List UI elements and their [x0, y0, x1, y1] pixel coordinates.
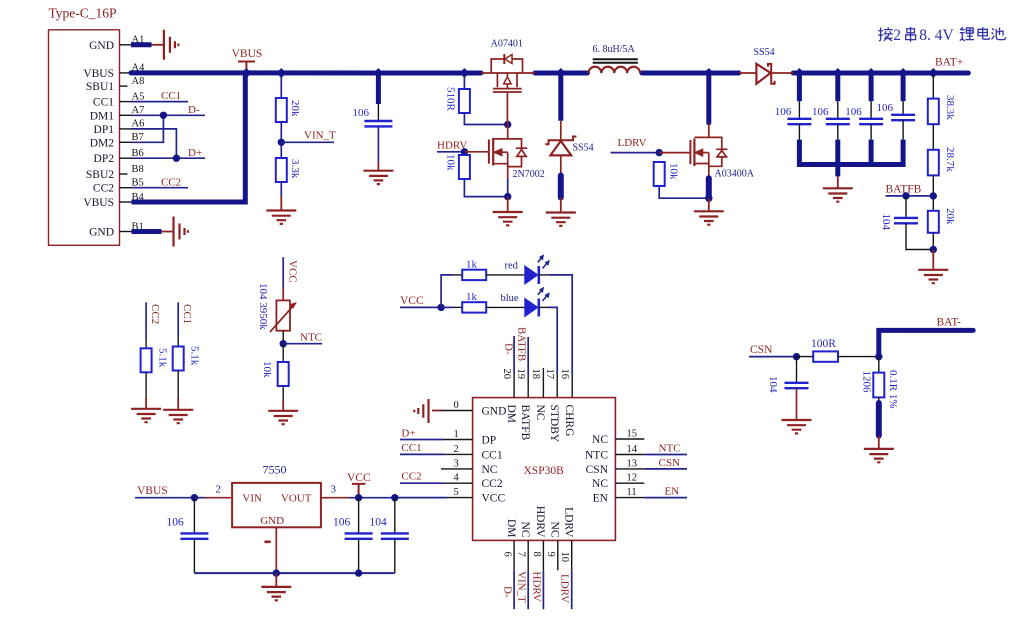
- wire rail to ground: [835, 165, 840, 177]
- svg-text:A03400A: A03400A: [715, 168, 755, 179]
- svg-text:20k: 20k: [289, 100, 301, 117]
- capacitor 104 CSN: [796, 357, 798, 383]
- svg-text:3.3k: 3.3k: [289, 159, 301, 179]
- svg-text:7550: 7550: [263, 463, 287, 477]
- transistor Q2 2N7002 substrate arrow: [494, 149, 502, 156]
- ground below A03400A: [694, 211, 724, 224]
- svg-text:0: 0: [454, 400, 459, 411]
- svg-text:D-: D-: [502, 586, 514, 598]
- svg-text:VBUS: VBUS: [83, 68, 114, 80]
- pin 5 wire VCC: [395, 497, 447, 499]
- svg-text:VBUS: VBUS: [137, 485, 168, 497]
- svg-text:A07401: A07401: [491, 39, 523, 50]
- svg-text:5.1k: 5.1k: [157, 348, 169, 368]
- pin 18 stub: [542, 368, 544, 398]
- svg-text:5.1k: 5.1k: [189, 346, 201, 366]
- resistor 5.1k CC2: [141, 348, 152, 372]
- svg-text:D+: D+: [188, 147, 202, 159]
- svg-text:VBUS: VBUS: [232, 48, 263, 60]
- svg-text:GND: GND: [260, 515, 284, 527]
- transistor Q1 A07401 gate lead: [506, 92, 508, 125]
- ground below cap106: [363, 171, 393, 184]
- ground below shunt: [864, 449, 894, 462]
- svg-text:10k: 10k: [261, 361, 273, 378]
- wire bus to cap 1: [797, 75, 802, 101]
- net stub CC1: [177, 302, 179, 336]
- pin A7 wire, net D-: [120, 114, 132, 116]
- resistor 3.3k: [276, 158, 287, 182]
- junction LDRV node: [656, 149, 663, 156]
- svg-text:DM2: DM2: [90, 137, 115, 149]
- wire bus down to SS54: [558, 73, 563, 121]
- svg-text:D-: D-: [503, 343, 515, 355]
- wire BATFB cap down: [905, 196, 907, 218]
- wire 0.1R to ground: [878, 397, 880, 403]
- pin B4 wire VBUS riser: [120, 201, 132, 203]
- transistor Q1 A07401 wire: [481, 72, 535, 74]
- svg-text:NC: NC: [482, 464, 498, 476]
- svg-text:18: 18: [530, 369, 541, 380]
- resistor 20k BATFB: [928, 211, 939, 233]
- wire red LED to pin16: [539, 274, 549, 276]
- svg-text:12: 12: [627, 473, 638, 484]
- svg-text:13: 13: [627, 458, 638, 469]
- resistor 20k: [276, 98, 287, 122]
- ground below 2N7002: [493, 212, 523, 225]
- diode D3 SS54 cathode bar: [768, 64, 775, 84]
- 7550 GND pin wire: [275, 527, 277, 573]
- svg-text:NC: NC: [592, 434, 608, 446]
- pin 13 wire CSN: [615, 468, 644, 470]
- wire to ground A03400A: [708, 198, 710, 211]
- transistor Q2 2N7002 drain: [493, 125, 508, 139]
- ground below cap bank: [823, 188, 853, 201]
- junction NTC: [280, 340, 287, 347]
- svg-text:LDRV: LDRV: [559, 574, 571, 603]
- junction BATFB chain: [930, 192, 937, 199]
- wire CSN: [749, 356, 797, 358]
- inductor L1 coil: [589, 67, 641, 73]
- BAT+ bus segment: [793, 71, 968, 76]
- LED blue cathode bar: [537, 299, 540, 317]
- svg-text:NC: NC: [549, 522, 561, 538]
- svg-text:VOUT: VOUT: [281, 493, 312, 505]
- svg-text:1206: 1206: [861, 371, 873, 394]
- svg-text:DM1: DM1: [90, 110, 115, 122]
- svg-text:100R: 100R: [811, 338, 836, 350]
- cap bank bottom rail: [797, 162, 906, 167]
- wire 1k to red LED: [486, 274, 525, 276]
- svg-text:DM: DM: [505, 519, 517, 538]
- transistor Q2 2N7002 gate bar: [488, 140, 490, 164]
- svg-text:VCC: VCC: [347, 472, 371, 484]
- transistor Q3 A03400A drain: [694, 123, 708, 137]
- wire cap106 to ground: [377, 126, 379, 162]
- junction VCC 106: [355, 494, 362, 501]
- wire 20k to ground node: [932, 233, 934, 250]
- pin A8 stub: [120, 85, 128, 87]
- svg-text:38.3k: 38.3k: [944, 95, 956, 120]
- wire bus to diode D3: [739, 72, 757, 74]
- svg-text:6. 8uH/5A: 6. 8uH/5A: [593, 44, 636, 55]
- svg-text:15: 15: [627, 429, 638, 440]
- pin 0 wire GND: [441, 410, 473, 412]
- pin 9 stub: [557, 540, 559, 570]
- svg-text:A8: A8: [132, 76, 145, 87]
- diode D3 SS54 triangle: [756, 64, 770, 84]
- svg-text:19: 19: [515, 369, 526, 380]
- svg-text:CC1: CC1: [181, 304, 193, 324]
- svg-text:2: 2: [893, 27, 901, 44]
- LED red triangle: [525, 266, 538, 284]
- svg-text:B8: B8: [132, 164, 144, 175]
- capacitor 106 bank 3: [859, 119, 883, 124]
- svg-text:XSP30B: XSP30B: [524, 465, 565, 477]
- svg-text:VCC: VCC: [287, 260, 299, 283]
- wire 104 CSN to ground: [796, 388, 798, 419]
- svg-text:NC: NC: [519, 522, 531, 538]
- transistor Q1 A07401 channel: [497, 73, 517, 87]
- ground below BATFB divider: [918, 270, 948, 283]
- wire 20k to 3.3k: [280, 122, 282, 158]
- svg-text:A7: A7: [132, 105, 145, 116]
- svg-text:104 3950k: 104 3950k: [257, 283, 269, 330]
- wire cap 1 to rail: [798, 124, 800, 139]
- svg-text:106: 106: [333, 517, 351, 529]
- junction VBUS cap: [191, 494, 198, 501]
- svg-text:SBU2: SBU2: [86, 169, 114, 181]
- svg-text:CHRG: CHRG: [563, 405, 575, 437]
- svg-text:CC2: CC2: [482, 478, 503, 490]
- transistor Q2 2N7002 channel bar: [492, 138, 494, 166]
- svg-text:EN: EN: [593, 493, 609, 505]
- svg-text:BATFB: BATFB: [516, 327, 528, 361]
- wire 10k NTC to ground: [282, 386, 284, 400]
- junction VIN_T: [278, 139, 285, 146]
- svg-text:red: red: [505, 260, 519, 271]
- wire diode D3 to BAT+ bus: [771, 72, 793, 74]
- junction gate node A07401: [504, 121, 511, 128]
- svg-text:CC2: CC2: [401, 471, 421, 483]
- svg-text:VBUS: VBUS: [83, 197, 114, 209]
- transistor Q3 A03400A channel bar: [693, 139, 695, 167]
- LED red arrows: [538, 258, 547, 268]
- pin 3 stub: [441, 468, 473, 470]
- svg-text:DM: DM: [505, 405, 517, 424]
- wire NTC to 10k: [282, 344, 284, 362]
- svg-text:DP2: DP2: [94, 153, 115, 165]
- svg-text:CSN: CSN: [750, 344, 773, 356]
- pin 2 wire CC1: [400, 453, 445, 455]
- resistor 1k red: [462, 270, 486, 280]
- ground at B1: [174, 217, 189, 247]
- ground below 104 CSN: [782, 420, 812, 433]
- svg-text:CC1: CC1: [401, 442, 421, 454]
- chinese title jie 2 chuan 8.4V li dian chi: [878, 27, 893, 41]
- transistor Q3 A03400A body diode: [709, 137, 728, 166]
- resistor 5.1k CC1: [173, 347, 184, 371]
- wire cap 3 to rail: [870, 124, 872, 139]
- wire cap 4 to rail: [902, 120, 904, 139]
- svg-text:9: 9: [545, 552, 556, 557]
- resistor 38.3k: [928, 99, 939, 125]
- wire bus to R 38.3k: [932, 75, 934, 99]
- wire 28.7k to BATFB node: [932, 175, 934, 210]
- svg-text:BAT+: BAT+: [935, 56, 963, 68]
- svg-text:106: 106: [812, 106, 829, 118]
- svg-text:8: 8: [531, 552, 542, 557]
- pin 14 wire NTC: [615, 454, 644, 456]
- wire VCC up to red 1k: [441, 275, 453, 308]
- thermistor RT1 arrow: [270, 305, 294, 332]
- svg-text:6: 6: [502, 552, 513, 557]
- thermistor RT1 body: [276, 300, 290, 330]
- svg-text:NTC: NTC: [659, 442, 681, 454]
- svg-text:11: 11: [627, 487, 637, 498]
- ground below CC1: [163, 410, 193, 423]
- svg-text:VCC: VCC: [400, 295, 424, 307]
- svg-text:CC2: CC2: [149, 304, 161, 324]
- svg-text:106: 106: [877, 102, 894, 114]
- wire 10k to source node: [659, 186, 709, 198]
- ground below SS54: [546, 213, 576, 226]
- IC U1 XSP30B body: [473, 398, 616, 541]
- wire 38.3k to 28.7k: [932, 124, 934, 150]
- resistor 1k blue: [462, 302, 486, 312]
- junction rail to ground: [833, 160, 842, 169]
- svg-text:104: 104: [370, 517, 388, 529]
- junction cap bank 1 on bus: [794, 68, 804, 78]
- wire 5.1k CC1 to ground: [177, 371, 179, 399]
- svg-text:106: 106: [353, 107, 370, 119]
- transistor Q3 A03400A gate bar: [689, 140, 691, 164]
- connector J1 body: [49, 30, 120, 246]
- svg-text:CC2: CC2: [161, 176, 181, 188]
- svg-text:SBU1: SBU1: [86, 81, 114, 93]
- wire bus to cap 2: [835, 75, 840, 101]
- pin 10 wire LDRV: [571, 540, 573, 570]
- junction VBUS riser: [241, 68, 251, 78]
- pin B5 wire, net CC2: [120, 187, 132, 189]
- svg-text:1k: 1k: [466, 291, 478, 303]
- svg-text:VIN_T: VIN_T: [304, 130, 336, 142]
- pin 6 wire D-: [513, 540, 515, 570]
- ground at A1: [164, 30, 179, 60]
- ground below NTC divider: [268, 411, 298, 424]
- svg-text:104: 104: [767, 376, 779, 393]
- pin A4 stub: [120, 72, 132, 74]
- svg-text:2: 2: [454, 444, 459, 455]
- svg-text:SS54: SS54: [573, 142, 594, 153]
- pin 15 stub: [615, 438, 644, 440]
- svg-text:BAT-: BAT-: [937, 316, 962, 328]
- pin 8 wire HDRV: [542, 540, 544, 570]
- junction source node A03400A: [705, 195, 712, 202]
- wire 510R to gate node: [464, 113, 507, 125]
- pin B7 wire to DM1: [120, 141, 132, 143]
- svg-text:LDRV: LDRV: [562, 507, 574, 538]
- wire BAT- bus: [879, 330, 973, 358]
- junction shunt node: [875, 353, 882, 360]
- net stub CC2: [145, 302, 147, 338]
- svg-text:D+: D+: [401, 428, 415, 440]
- wire to ground 2N7002: [507, 197, 509, 212]
- svg-text:510R: 510R: [445, 87, 457, 112]
- wire 100R to shunt node: [838, 356, 879, 358]
- resistor 10k HDRV: [459, 155, 470, 179]
- svg-text:CC1: CC1: [161, 90, 181, 102]
- svg-text:0.1R 1%: 0.1R 1%: [887, 370, 899, 409]
- svg-text:7: 7: [516, 552, 527, 557]
- wire LDRV to gate: [659, 152, 690, 154]
- resistor 28.7k: [928, 150, 939, 176]
- wire VCC to blue 1k: [441, 306, 453, 308]
- svg-text:blue: blue: [501, 293, 519, 304]
- junction VCC 104: [391, 494, 398, 501]
- junction rail center: [273, 569, 280, 576]
- svg-text:EN: EN: [665, 485, 680, 497]
- wire net VIN_T: [281, 141, 334, 143]
- pin A6 wire to DP2: [120, 128, 132, 130]
- ground below 7550: [261, 587, 291, 600]
- pin B6 wire, net D+: [120, 157, 132, 159]
- wire net BATFB: [886, 195, 934, 197]
- svg-text:20k: 20k: [944, 208, 956, 225]
- LED blue arrows: [538, 291, 547, 301]
- pin 4 wire CC2: [400, 482, 445, 484]
- svg-text:CC1: CC1: [482, 449, 503, 461]
- wire VCC LED feed: [400, 306, 441, 308]
- diode D2 SS54 cathode bar: [545, 137, 576, 145]
- junction BAT+ divider on bus: [928, 68, 938, 78]
- pin 7 wire VIN_T: [527, 540, 529, 570]
- inductor L1 core: [593, 59, 638, 63]
- transistor Q1 A07401 substrate arrow: [506, 73, 508, 76]
- capacitor 106 bank 4: [891, 115, 915, 120]
- pin 20 wire D-: [513, 336, 515, 374]
- LED blue triangle: [525, 299, 538, 317]
- svg-text:16: 16: [559, 369, 570, 380]
- svg-text:LDRV: LDRV: [618, 137, 647, 149]
- pin 19 wire BATFB: [527, 337, 529, 374]
- bus segment after inductor: [642, 71, 739, 76]
- transistor Q2 2N7002 source: [493, 152, 508, 178]
- svg-text:CSN: CSN: [659, 457, 680, 469]
- wire 1k to blue LED: [486, 306, 525, 308]
- wire bus to cap 3: [869, 75, 874, 101]
- svg-text:104: 104: [880, 214, 892, 231]
- svg-text:GND: GND: [89, 40, 114, 52]
- pin A5 wire, net CC1: [120, 101, 132, 103]
- svg-text:3: 3: [331, 483, 337, 495]
- svg-text:VIN_T: VIN_T: [516, 571, 528, 603]
- svg-text:HDRV: HDRV: [534, 506, 546, 538]
- svg-text:VCC: VCC: [482, 493, 506, 505]
- IC U2 7550 body: [232, 483, 321, 527]
- wire source down: [507, 178, 509, 196]
- pin 1 wire D+: [400, 439, 443, 441]
- junction ground node BATFB: [930, 246, 937, 253]
- VBUS bus segment 2: [535, 71, 588, 76]
- pin B8 stub: [120, 173, 128, 175]
- svg-text:5: 5: [454, 487, 459, 498]
- junction DM at A7: [160, 112, 167, 119]
- svg-text:DP: DP: [482, 435, 497, 447]
- transistor Q1 A07401 body diode loop: [491, 59, 522, 73]
- wire CSN to 100R: [797, 356, 814, 358]
- junction source node 2N7002: [504, 193, 511, 200]
- svg-text:NTC: NTC: [300, 331, 322, 343]
- svg-text:SS54: SS54: [754, 47, 775, 58]
- wire cap 2 to rail: [837, 124, 839, 139]
- svg-text:106: 106: [845, 106, 862, 118]
- resistor 10k NTC: [278, 362, 289, 386]
- svg-text:3: 3: [454, 458, 459, 469]
- svg-text:NC: NC: [592, 478, 608, 490]
- svg-text:GND: GND: [482, 406, 507, 418]
- ground below 3.3k: [266, 211, 296, 224]
- junction CSN cap: [793, 353, 800, 360]
- junction HDRV node: [461, 148, 468, 155]
- wire VCC to thermistor: [282, 257, 284, 287]
- wire HDRV to gate: [464, 151, 489, 153]
- svg-text:BATFB: BATFB: [519, 405, 531, 441]
- wire SS54 to ground: [560, 155, 562, 175]
- wire bus to cap 106: [376, 76, 381, 105]
- pin A1 wire (GND): [120, 44, 132, 46]
- junction cap bank 4 on bus: [898, 68, 908, 78]
- capacitor 106 bank 1: [787, 119, 811, 124]
- wire 5.1k CC2 to ground: [145, 372, 147, 397]
- transistor Q2 2N7002 body diode: [508, 139, 528, 167]
- svg-text:1k: 1k: [466, 258, 478, 270]
- svg-text:10k: 10k: [445, 154, 457, 171]
- capacitor 106 VBUS side: [193, 498, 195, 534]
- capacitor 104 BATFB: [894, 218, 918, 223]
- wire 10k to source node: [464, 179, 507, 197]
- wire net NTC: [283, 343, 322, 345]
- junction 20k on bus: [276, 68, 286, 78]
- wire bus to R 20k: [280, 75, 282, 98]
- pin 11 wire EN: [615, 497, 644, 499]
- svg-text:DP1: DP1: [94, 124, 115, 136]
- capacitor 106 bank 2: [826, 119, 850, 124]
- capacitor 106 input: [364, 121, 392, 126]
- svg-text:D-: D-: [188, 104, 200, 116]
- svg-text:106: 106: [775, 106, 792, 118]
- junction rail vcc: [355, 569, 362, 576]
- capacitor 104 VCC side: [394, 498, 396, 534]
- wire source down A03400A: [706, 178, 712, 198]
- ground rail 7550: [194, 572, 394, 574]
- resistor 0.1R 1206 shunt: [873, 373, 884, 398]
- wire HDRV: [437, 151, 464, 153]
- LED red cathode bar: [537, 266, 540, 284]
- svg-text:106: 106: [167, 517, 185, 529]
- junction 510R on bus: [459, 68, 469, 78]
- VBUS bus segment 1: [131, 70, 481, 75]
- svg-text:20: 20: [501, 369, 512, 380]
- svg-text:NC: NC: [534, 405, 546, 421]
- wire rail to ground: [275, 573, 277, 587]
- junction A03400A tap on bus: [704, 68, 714, 78]
- svg-text:4: 4: [454, 473, 460, 484]
- svg-text:17: 17: [544, 369, 555, 380]
- pin 3 wire VOUT: [321, 497, 349, 499]
- svg-text:28.7k: 28.7k: [944, 147, 956, 172]
- pin 12 stub: [615, 482, 644, 484]
- junction VCC LED: [437, 304, 444, 311]
